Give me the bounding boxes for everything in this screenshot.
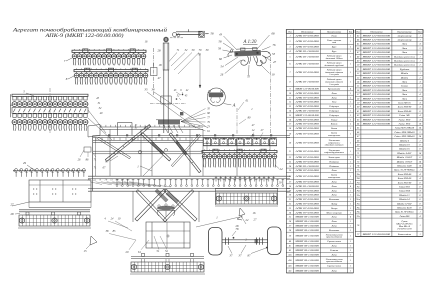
- svg-text:1: 1: [350, 225, 351, 227]
- svg-text:Балка задняя: Балка задняя: [397, 233, 411, 236]
- svg-text:1: 1: [419, 234, 420, 236]
- svg-text:Обозначение: Обозначение: [370, 30, 382, 33]
- lower X right cyl: [166, 192, 179, 204]
- label col right of mast: [207, 108, 210, 134]
- horiz dashdot at 103.5: [150, 103, 186, 105]
- svg-text:МКВТ 122-00.00.000: МКВТ 122-00.00.000: [361, 234, 391, 236]
- svg-text:1: 1: [350, 161, 351, 163]
- svg-text:1: 1: [350, 93, 351, 95]
- right packer row: [203, 138, 277, 146]
- svg-text:дисковый 100мм: дисковый 100мм: [326, 57, 343, 60]
- svg-text:Замок цепи: Замок цепи: [328, 156, 340, 159]
- svg-text:47: 47: [273, 60, 277, 64]
- svg-text:1: 1: [350, 181, 351, 183]
- svg-text:МКВТ 09-1.00.000: МКВТ 09-1.00.000: [294, 246, 320, 248]
- svg-text:АПК 07-010.000: АПК 07-010.000: [294, 189, 320, 192]
- svg-text:18: 18: [159, 63, 163, 67]
- svg-text:АПК 03-10.00.00: АПК 03-10.00.00: [294, 56, 320, 59]
- svg-text:1: 1: [419, 212, 420, 214]
- svg-text:Лапа: Лапа: [330, 185, 337, 188]
- svg-text:АПК 07-010.000: АПК 07-010.000: [294, 101, 320, 104]
- dark bar mast base: [158, 120, 180, 125]
- svg-text:Лапа: Лапа: [330, 269, 337, 272]
- svg-text:Болт М6-16: Болт М6-16: [397, 101, 411, 104]
- svg-text:Лапа: Лапа: [401, 89, 408, 92]
- svg-text:Опора: Опора: [331, 207, 338, 210]
- svg-text:обводкой соединен: обводкой соединен: [325, 144, 345, 147]
- svg-text:Подвеска: Подвеска: [328, 165, 339, 168]
- svg-text:58: 58: [219, 40, 223, 44]
- svg-text:27: 27: [10, 203, 14, 207]
- svg-text:Сцепка полки: Сцепка полки: [327, 240, 341, 243]
- svg-text:1: 1: [350, 106, 351, 108]
- svg-text:1: 1: [350, 176, 351, 178]
- svg-text:Гайка М16: Гайка М16: [398, 122, 411, 125]
- svg-text:АПК 07-010.000: АПК 07-010.000: [294, 194, 320, 197]
- mast top circle: [163, 37, 168, 42]
- svg-text:Шайба: Шайба: [400, 72, 409, 75]
- svg-text:1: 1: [350, 199, 351, 201]
- svg-text:Гайка М10: Гайка М10: [398, 118, 411, 121]
- detail view A 1:20: [228, 40, 271, 66]
- label fan 30 22 9 79 75 73 27: [88, 179, 171, 187]
- svg-text:гидрооборудования: гидрооборудования: [324, 151, 344, 154]
- svg-text:Наименование: Наименование: [396, 31, 411, 33]
- svg-text:АПК 07-010.000: АПК 07-010.000: [294, 150, 320, 153]
- svg-text:Наименование: Наименование: [326, 31, 341, 33]
- svg-text:Лапа: Лапа: [401, 93, 408, 96]
- svg-text:МКВТ 122-00.00.000: МКВТ 122-00.00.000: [361, 119, 391, 121]
- svg-text:1: 1: [350, 51, 351, 53]
- svg-text:Сцепка полки: Сцепка полки: [327, 265, 341, 268]
- lower X brace 4: [163, 190, 194, 222]
- svg-text:59: 59: [218, 47, 222, 51]
- svg-text:76г: 76г: [357, 186, 360, 188]
- svg-text:АПК 07-010.000: АПК 07-010.000: [294, 34, 320, 37]
- svg-text:МКВТ 122-00.00.000: МКВТ 122-00.00.000: [361, 98, 391, 100]
- svg-text:29: 29: [23, 161, 27, 165]
- svg-text:МКВТ 122-00.00.000: МКВТ 122-00.00.000: [361, 69, 391, 71]
- svg-text:Поз: Поз: [355, 31, 360, 33]
- svg-text:Сошник: Сошник: [330, 249, 339, 252]
- svg-text:1: 1: [419, 52, 420, 54]
- mast label leaders: [169, 53, 178, 63]
- svg-text:60: 60: [219, 57, 223, 61]
- label B arrow: [237, 216, 242, 220]
- svg-text:АПК 07-010.000: АПК 07-010.000: [294, 118, 320, 121]
- svg-text:АПК 07-010.000: АПК 07-010.000: [294, 127, 320, 130]
- svg-text:41: 41: [289, 245, 291, 248]
- svg-text:Брус: Брус: [331, 50, 338, 53]
- lower X brace 3: [136, 190, 167, 222]
- svg-text:1: 1: [419, 39, 420, 41]
- svg-text:1: 1: [419, 170, 420, 172]
- svg-text:Амортизатор: Амортизатор: [396, 38, 412, 41]
- left tire: [209, 228, 223, 256]
- svg-text:68: 68: [272, 32, 276, 36]
- central lower box: [146, 222, 190, 248]
- upper X brace right diag 2: [171, 134, 200, 166]
- svg-text:Рама: Рама: [330, 34, 337, 37]
- svg-text:МКВТ 122-00.00.000: МКВТ 122-00.00.000: [361, 44, 391, 46]
- svg-text:24: 24: [280, 167, 284, 171]
- svg-text:Болт М12-40: Болт М12-40: [397, 181, 412, 184]
- svg-text:АПК 07-010.000: АПК 07-010.000: [294, 123, 320, 126]
- svg-text:МКВТ 122-00.00.000: МКВТ 122-00.00.000: [361, 90, 391, 92]
- svg-text:1: 1: [350, 110, 351, 112]
- svg-text:МКВТ 122-00.00.000: МКВТ 122-00.00.000: [361, 52, 391, 54]
- detail A leaders: [218, 32, 277, 79]
- svg-text:1: 1: [350, 230, 351, 232]
- flag 15: [90, 236, 97, 245]
- svg-text:61: 61: [357, 111, 359, 113]
- svg-text:АПК 07-010.000: АПК 07-010.000: [294, 40, 320, 43]
- svg-text:1: 1: [350, 241, 351, 243]
- svg-text:26: 26: [220, 73, 224, 77]
- coulter row 29: [13, 169, 86, 177]
- svg-text:1: 1: [350, 203, 351, 205]
- svg-text:76: 76: [273, 43, 277, 47]
- svg-text:Рычаг: Рычаг: [330, 118, 337, 121]
- svg-text:Шайба 6: Шайба 6: [399, 139, 410, 142]
- svg-text:Вкладыш растяжки: Вкладыш растяжки: [394, 59, 416, 62]
- left panel box: [12, 180, 91, 208]
- svg-text:Поз: Поз: [287, 31, 292, 33]
- svg-text:МКВТ 09-1.00.000: МКВТ 09-1.00.000: [294, 221, 320, 223]
- central frame beams: [88, 123, 290, 192]
- svg-text:1: 1: [350, 246, 351, 248]
- svg-text:Гайка М6: Гайка М6: [398, 114, 410, 117]
- svg-text:Шайба 16: Шайба 16: [398, 148, 410, 151]
- svg-text:Чурбачок: Чурбачок: [400, 68, 411, 71]
- svg-text:51: 51: [357, 69, 359, 71]
- harrow section 7: [72, 49, 146, 65]
- svg-text:Лапа: Лапа: [401, 97, 408, 100]
- svg-text:дисковый трубный: дисковый трубный: [324, 64, 344, 67]
- svg-text:76з: 76з: [357, 203, 360, 205]
- tool tick row: [116, 179, 284, 187]
- svg-text:35: 35: [145, 88, 149, 92]
- svg-text:76е: 76е: [357, 195, 360, 197]
- svg-text:АПК 07-010.000: АПК 07-010.000: [294, 202, 320, 205]
- leader to frame: [88, 110, 106, 133]
- detail circle A: [207, 88, 235, 107]
- central hitch assembly: [157, 204, 175, 217]
- svg-text:1: 1: [350, 57, 351, 59]
- svg-text:МКВТ 122-00.00.000: МКВТ 122-00.00.000: [361, 94, 391, 96]
- svg-text:приспособления: приспособления: [326, 236, 342, 239]
- svg-text:Шайба 16-65Г: Шайба 16-65Г: [396, 160, 413, 163]
- svg-text:1: 1: [350, 102, 351, 104]
- svg-text:МКВТ 122-00.00.000: МКВТ 122-00.00.000: [294, 88, 319, 90]
- svg-text:АПК 07-010.000: АПК 07-010.000: [294, 198, 320, 201]
- lower X brace 2: [164, 189, 197, 221]
- svg-text:43: 43: [219, 33, 223, 37]
- svg-text:Балка: Балка: [330, 127, 338, 130]
- svg-text:1: 1: [350, 170, 351, 172]
- svg-text:АПК 07-010.000: АПК 07-010.000: [294, 175, 320, 178]
- svg-text:Шплинт 4х30: Шплинт 4х30: [396, 206, 412, 209]
- svg-text:МКВТ 09-1.00.000: МКВТ 09-1.00.000: [294, 241, 320, 243]
- svg-text:Болт М10-60: Болт М10-60: [397, 177, 412, 180]
- svg-text:1: 1: [419, 35, 420, 37]
- svg-text:54: 54: [221, 65, 225, 69]
- svg-text:1: 1: [350, 142, 351, 144]
- svg-text:Цепь 91.78-500мм: Цепь 91.78-500мм: [394, 211, 414, 214]
- svg-text:55: 55: [247, 75, 251, 79]
- svg-text:28: 28: [10, 212, 14, 216]
- svg-text:1: 1: [350, 270, 351, 272]
- svg-text:АПК 07-010.000: АПК 07-010.000: [294, 133, 320, 136]
- svg-text:Лапа: Лапа: [330, 169, 337, 172]
- mast H bracket: [161, 95, 171, 97]
- svg-text:МКВТ 122-00.00.000: МКВТ 122-00.00.000: [361, 123, 391, 125]
- svg-text:Обозначение: Обозначение: [301, 30, 313, 33]
- bottom central roller: [130, 253, 205, 274]
- svg-text:1: 1: [350, 41, 351, 43]
- svg-text:Лапа: Лапа: [401, 43, 408, 46]
- svg-text:АПК 07-010.000: АПК 07-010.000: [294, 156, 320, 159]
- upper X brace left diag 1: [105, 125, 150, 162]
- svg-text:Лапа: Лапа: [401, 51, 408, 54]
- mid col leaders: [176, 92, 181, 95]
- svg-text:1: 1: [350, 190, 351, 192]
- svg-text:АПК 07-010.000: АПК 07-010.000: [294, 105, 320, 108]
- svg-text:1: 1: [350, 157, 351, 159]
- svg-text:электролит: электролит: [328, 176, 341, 179]
- svg-text:МКВТ 09-1.00.000: МКВТ 09-1.00.000: [294, 250, 320, 252]
- roller 5 centerline: [49, 88, 51, 133]
- svg-text:АПК 07-010.000: АПК 07-010.000: [294, 92, 320, 95]
- svg-text:Кронштейн: Кронштейн: [327, 87, 341, 90]
- right lower section: [215, 177, 278, 207]
- svg-text:МКВТ 09-1.00.000: МКВТ 09-1.00.000: [294, 260, 320, 262]
- lower X brace 1: [135, 189, 166, 221]
- svg-text:Вкладыш растяжки: Вкладыш растяжки: [394, 64, 416, 67]
- svg-text:1: 1: [350, 250, 351, 252]
- svg-text:76л: 76л: [357, 216, 360, 218]
- svg-text:Лидер: Лидер: [330, 202, 338, 205]
- harrow section 8: [74, 68, 148, 84]
- svg-text:5 см рядн: 5 см рядн: [329, 83, 339, 86]
- svg-text:МКВТ 09-1.00.000: МКВТ 09-1.00.000: [294, 266, 320, 268]
- svg-text:76в: 76в: [357, 182, 360, 184]
- top hitch assembly: [173, 29, 209, 37]
- svg-text:АПК 07-010.000: АПК 07-010.000: [294, 211, 320, 214]
- svg-text:Лапа: Лапа: [401, 47, 408, 50]
- mast lower: [163, 70, 165, 133]
- hatch under dark bar: [163, 125, 168, 133]
- svg-text:электролит: электролит: [328, 134, 341, 137]
- svg-text:Лапа: Лапа: [330, 253, 337, 256]
- svg-text:МКВТ 09-1.00.000: МКВТ 09-1.00.000: [294, 230, 320, 232]
- svg-text:АПК 07-010.000: АПК 07-010.000: [294, 96, 320, 99]
- svg-text:МКВТ 09-1.00.000: МКВТ 09-1.00.000: [294, 254, 320, 256]
- svg-text:Гайка М30 2М6х50: Гайка М30 2М6х50: [393, 135, 415, 138]
- svg-text:1: 1: [289, 35, 290, 37]
- svg-text:1: 1: [350, 134, 351, 136]
- lower X left cyl: [155, 189, 168, 202]
- right harrow lower: [202, 149, 277, 167]
- svg-text:МКВТ 122-00.00.000: МКВТ 122-00.00.000: [361, 35, 391, 37]
- dashdot right section centerline: [270, 57, 272, 133]
- svg-text:Лапа: Лапа: [330, 96, 337, 99]
- svg-text:Болт М16-40: Болт М16-40: [397, 110, 412, 113]
- svg-text:42в: 42в: [288, 265, 291, 268]
- svg-text:МКВТ 09-1.00.000: МКВТ 09-1.00.000: [294, 236, 320, 238]
- svg-text:19: 19: [272, 73, 276, 77]
- svg-text:Шайба 12-65Г: Шайба 12-65Г: [396, 202, 412, 205]
- svg-text:1: 1: [419, 73, 420, 75]
- svg-text:Лапа: Лапа: [330, 92, 337, 95]
- svg-text:Шайба: Шайба: [400, 76, 409, 79]
- svg-text:МКВТ 09-1.00.000: МКВТ 09-1.00.000: [294, 217, 320, 219]
- svg-text:МКВТ 122-00.00.000: МКВТ 122-00.00.000: [294, 115, 319, 117]
- svg-text:АПК 07-010.000: АПК 07-010.000: [294, 207, 320, 210]
- cone leaders to mast base: [181, 109, 206, 132]
- svg-text:Подвеска: Подвеска: [328, 160, 339, 163]
- svg-text:Шплинт 5х40: Шплинт 5х40: [396, 164, 412, 167]
- svg-text:1: 1: [419, 86, 420, 88]
- svg-text:1: 1: [350, 166, 351, 168]
- roller section 5: [10, 94, 88, 131]
- svg-text:Гидроцил: Гидроцил: [328, 105, 339, 108]
- svg-text:1: 1: [350, 208, 351, 210]
- svg-text:Гидроцил: Гидроцил: [328, 109, 339, 112]
- svg-text:МКВТ 122-00.00.000: МКВТ 122-00.00.000: [361, 56, 391, 58]
- svg-text:Сошка: Сошка: [401, 85, 409, 88]
- brace joint circles: [138, 150, 141, 153]
- svg-text:Цепь 91.78-7000мм: Цепь 91.78-7000мм: [393, 169, 415, 172]
- svg-text:АПК 03-10.00.00: АПК 03-10.00.00: [294, 63, 320, 66]
- svg-text:МКВТ 09-1.00.000: МКВТ 09-1.00.000: [294, 270, 320, 272]
- svg-text:Кол: Кол: [417, 31, 421, 33]
- svg-text:АПК 03-10.00.00: АПК 03-10.00.00: [294, 80, 320, 83]
- svg-text:Лапа: Лапа: [330, 194, 337, 197]
- svg-text:Амортизатор: Амортизатор: [396, 34, 412, 37]
- right tire: [268, 227, 282, 255]
- right flag: [239, 208, 245, 216]
- svg-text:11: 11: [289, 97, 291, 99]
- svg-text:1: 1: [350, 236, 351, 238]
- svg-text:МКВТ 122-00.00.000: МКВТ 122-00.00.000: [361, 73, 391, 75]
- svg-text:76ж: 76ж: [356, 199, 360, 201]
- svg-text:1: 1: [350, 81, 351, 83]
- svg-text:Шайба 6-65Г: Шайба 6-65Г: [396, 152, 412, 155]
- svg-text:1: 1: [350, 64, 351, 66]
- svg-text:Мост опорный: Мост опорный: [325, 211, 342, 214]
- axle: [222, 238, 268, 245]
- svg-text:Болт М10-40: Болт М10-40: [397, 173, 412, 176]
- svg-text:58: 58: [211, 32, 215, 36]
- svg-text:1: 1: [350, 119, 351, 121]
- svg-text:Гидроцил: Гидроцил: [328, 114, 339, 117]
- svg-text:МКВТ 122-00.00.000: МКВТ 122-00.00.000: [361, 102, 391, 104]
- svg-text:МКВТ 122-00.00.000: МКВТ 122-00.00.000: [361, 107, 391, 109]
- svg-text:1: 1: [419, 60, 420, 62]
- svg-text:АПК 03-10.00.00: АПК 03-10.00.00: [294, 50, 320, 53]
- svg-text:15: 15: [84, 249, 88, 253]
- svg-text:Брус: Брус: [331, 46, 338, 49]
- svg-text:А: А: [232, 102, 236, 107]
- dashdot right: [236, 108, 238, 134]
- svg-text:Лапа: Лапа: [330, 224, 337, 227]
- svg-text:Гайка М20 2М6х50: Гайка М20 2М6х50: [394, 127, 415, 130]
- svg-text:Кол: Кол: [348, 31, 352, 33]
- svg-text:Лапа: Лапа: [330, 180, 337, 183]
- svg-text:33: 33: [152, 88, 156, 92]
- svg-text:1: 1: [350, 212, 351, 214]
- svg-text:1: 1: [350, 151, 351, 153]
- lower frame verticals: [132, 191, 134, 222]
- svg-text:31: 31: [289, 199, 291, 201]
- svg-text:42г: 42г: [288, 269, 291, 272]
- left bottom roller: [18, 210, 91, 228]
- svg-text:Лапа: Лапа: [401, 80, 408, 83]
- svg-text:28: 28: [158, 49, 162, 53]
- svg-text:Гайка М24 2М6х50: Гайка М24 2М6х50: [393, 131, 415, 134]
- svg-text:приспособления: приспособления: [326, 260, 342, 263]
- svg-text:АПК 07-010.000: АПК 07-010.000: [294, 169, 320, 172]
- svg-text:МКВТ 122-00.00.000: МКВТ 122-00.00.000: [361, 77, 391, 79]
- svg-text:1: 1: [350, 260, 351, 262]
- svg-text:21: 21: [289, 151, 291, 153]
- svg-text:Шайба 14: Шайба 14: [398, 198, 410, 201]
- parts table right: [355, 30, 423, 237]
- svg-text:Болт М10-80: Болт М10-80: [397, 106, 412, 109]
- upper X brace right diag 1: [169, 133, 201, 173]
- svg-text:МКВТ 122-00.00.000: МКВТ 122-00.00.000: [361, 86, 391, 88]
- mast cylinder: [163, 43, 169, 70]
- svg-text:МКВТ 122-00.00.000: МКВТ 122-00.00.000: [361, 39, 391, 41]
- svg-text:Гайка М12: Гайка М12: [398, 185, 411, 188]
- svg-text:1: 1: [350, 72, 351, 74]
- label 58 leader: [205, 33, 209, 35]
- svg-text:71: 71: [357, 153, 359, 155]
- svg-text:1: 1: [419, 98, 420, 100]
- svg-text:АПК 03-10.00.00: АПК 03-10.00.00: [294, 109, 320, 112]
- svg-text:АПК 07-010.000: АПК 07-010.000: [294, 160, 320, 163]
- parts table left: [286, 30, 353, 273]
- svg-text:АПК 07-010.000: АПК 07-010.000: [294, 71, 320, 74]
- svg-text:1: 1: [350, 35, 351, 37]
- svg-text:1: 1: [350, 266, 351, 268]
- svg-text:МКВТ 09-1.00.000: МКВТ 09-1.00.000: [294, 225, 320, 227]
- svg-text:Колленвал: Колленвал: [328, 198, 339, 201]
- svg-text:1: 1: [419, 56, 420, 58]
- svg-text:МКВТ 122-00.00.000: МКВТ 122-00.00.000: [361, 48, 391, 50]
- svg-text:1: 1: [350, 115, 351, 117]
- svg-text:1: 1: [350, 221, 351, 223]
- svg-text:Виток: Виток: [331, 123, 339, 126]
- svg-text:Лапа: Лапа: [330, 220, 337, 223]
- svg-text:МКВТ 122-00.00.000: МКВТ 122-00.00.000: [361, 115, 391, 117]
- centerline: [153, 48, 155, 95]
- svg-text:Гайка М14: Гайка М14: [398, 190, 411, 193]
- svg-text:АПК-9 (МКВТ 122-00.00.000): АПК-9 (МКВТ 122-00.00.000): [44, 32, 123, 39]
- svg-text:АПК 07-010.000: АПК 07-010.000: [294, 141, 320, 144]
- svg-text:МКВТ 122-00.00.000: МКВТ 122-00.00.000: [361, 60, 391, 62]
- svg-text:Вкладыш растяжки: Вкладыш растяжки: [394, 55, 416, 58]
- svg-text:ГО 6791-5170: ГО 6791-5170: [396, 227, 412, 230]
- svg-text:1: 1: [419, 69, 420, 71]
- upper X brace left diag 2: [141, 133, 171, 161]
- svg-text:67: 67: [106, 160, 110, 164]
- svg-text:Лапа: Лапа: [330, 245, 337, 248]
- svg-text:1: 1: [419, 225, 420, 227]
- svg-text:АПК 07-010.000: АПК 07-010.000: [294, 46, 320, 49]
- svg-text:Шайба 10: Шайба 10: [398, 143, 410, 146]
